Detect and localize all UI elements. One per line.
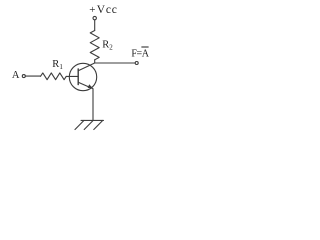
- svg-text:R2: R2: [102, 40, 113, 52]
- svg-text:A: A: [12, 70, 20, 81]
- svg-text:R1: R1: [52, 59, 63, 71]
- svg-text:+: +: [89, 4, 95, 16]
- svg-text:F=A: F=A: [131, 48, 149, 59]
- svg-text:Vcc: Vcc: [97, 4, 118, 16]
